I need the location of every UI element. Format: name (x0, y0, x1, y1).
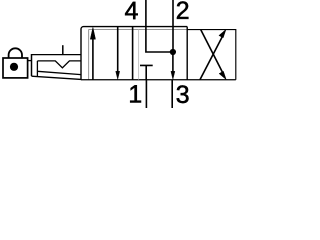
port 4 line with bend to junction (146, 0, 173, 52)
middle square: blocked port 1 (T) (140, 65, 153, 79)
port label 3 (177, 85, 189, 103)
middle square: down arrow to port 3 (172, 52, 174, 72)
lever left end vertical (36, 61, 38, 76)
left square: plain vertical line (132, 27, 134, 80)
port label 1 (130, 85, 141, 102)
valve body top edge (89, 30, 188, 80)
right square: diagonal down arrow (201, 29, 223, 72)
divider 1 (faint) (138, 30, 140, 80)
padlock connector (28, 60, 32, 62)
padlock shackle (9, 48, 22, 58)
left square: up arrow (92, 38, 94, 80)
lever / detent top bar with rounded corner (81, 27, 187, 80)
valve body top edge right part (187, 30, 236, 80)
port 3 line (171, 80, 173, 108)
port 1 line (145, 80, 147, 108)
port label 2 (177, 1, 188, 18)
padlock keyhole dot (10, 63, 18, 71)
junction dot (170, 49, 176, 55)
divider 2 (186, 27, 188, 80)
port 2 line down to junction (172, 0, 174, 52)
valve body bottom edge (81, 79, 236, 81)
notched line B with V notch (37, 61, 81, 68)
padlock body (3, 58, 28, 78)
port label 4 (125, 2, 138, 19)
detent rail A (32, 54, 82, 56)
right square: diagonal up arrow (200, 37, 222, 80)
lever lower edge line (32, 76, 82, 79)
lever vertical bar (31, 54, 33, 76)
lever upper edge line (37, 71, 81, 74)
left square: down arrow (117, 27, 119, 73)
detent pin (62, 45, 64, 54)
